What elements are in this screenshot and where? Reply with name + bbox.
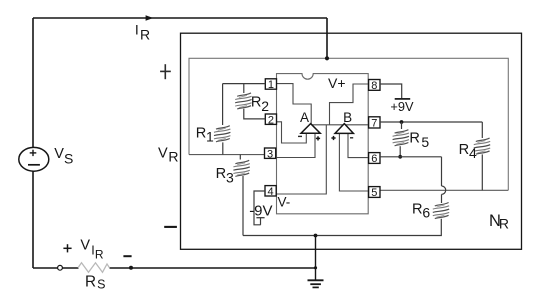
- wire: output line from A apex to pin 7: [311, 124, 368, 126]
- node: junction dot pin7 wire / R5 top: [400, 120, 404, 124]
- svg-text:2: 2: [268, 114, 274, 126]
- resistor R4: [474, 138, 490, 154]
- wire: hop to R6 top: [441, 194, 443, 203]
- pin 4: [265, 186, 276, 196]
- wire: pin3 to op-amp A non-inverting input (internal): [276, 133, 315, 158]
- svg-text:R: R: [196, 125, 207, 141]
- svg-text:1: 1: [268, 79, 274, 91]
- svg-text:V-: V-: [278, 195, 291, 210]
- resistor Rs (light gray zigzag): [78, 263, 110, 273]
- wire: pin3 net wire: [189, 154, 265, 156]
- wire: R2 top lead: [243, 84, 245, 93]
- svg-text:V: V: [80, 237, 90, 253]
- wire: R3 bottom lead down to ground wire: [242, 176, 244, 236]
- resistor R1: [214, 126, 230, 142]
- svg-text:R: R: [216, 166, 227, 182]
- svg-text:8: 8: [371, 80, 377, 92]
- op-amp B plus input mark: [331, 137, 335, 139]
- wire: op-amp B non-inverting input to pin 5 (internal): [339, 133, 368, 191]
- svg-text:7: 7: [371, 118, 377, 130]
- pin 6: [369, 153, 380, 164]
- wire: op-amp B inverting input to pin 6 (internal): [348, 133, 368, 157]
- wire: R5 top lead: [401, 122, 403, 129]
- svg-text:R: R: [251, 95, 262, 111]
- wire: vertical from pin6 wire down to hop: [441, 157, 443, 186]
- wire: R2 bottom lead and wire to pin 2: [244, 109, 265, 119]
- node: ground junction dot: [314, 234, 318, 238]
- op-amp A (triangle): [301, 124, 320, 134]
- svg-text:R: R: [95, 247, 104, 261]
- wire: R3 top lead: [239, 155, 241, 160]
- wire: top current wire from VS to inner net: [33, 17, 327, 19]
- wire: R5 bottom lead: [399, 146, 401, 157]
- svg-text:6: 6: [371, 153, 377, 165]
- wire: R1 top lead: [222, 84, 224, 125]
- svg-text:V: V: [158, 146, 168, 162]
- svg-text:3: 3: [226, 169, 234, 185]
- pin 5: [369, 187, 380, 198]
- pin 1: [265, 79, 276, 89]
- pin 8: [369, 80, 380, 91]
- wire: pin6 wire to R5/R6: [380, 156, 442, 158]
- +9V supply terminal bar: [395, 98, 411, 100]
- svg-text:4: 4: [268, 186, 274, 198]
- pin 7: [369, 117, 380, 128]
- svg-text:R: R: [412, 202, 423, 218]
- wire: pin5 net wire: [380, 189, 508, 191]
- svg-text:R: R: [499, 215, 509, 231]
- voltage source VS: [19, 147, 49, 171]
- svg-text:R: R: [85, 273, 96, 290]
- inner guard net: left edge, top edge, right edge: [189, 58, 508, 190]
- resistor R3: [233, 160, 249, 176]
- node: junction of top wire with inner net: [325, 56, 329, 60]
- op-amp B minus input mark: [350, 137, 353, 139]
- svg-text:S: S: [64, 150, 73, 166]
- current arrow IR on top wire: [146, 15, 154, 21]
- node: junction of bottom wire and ground stem: [314, 266, 317, 269]
- op-amp A plus input mark: [316, 137, 320, 139]
- minus polarity mark for VIR: [123, 255, 131, 257]
- svg-text:4: 4: [469, 145, 477, 161]
- wire: pin1 to op-amp A output (internal): [277, 84, 312, 125]
- op-amp A minus input mark: [298, 135, 302, 137]
- wire: ground stem: [315, 236, 317, 281]
- resistor R2: [235, 93, 251, 109]
- wire: pin2 to op-amp A inverting input (internal): [276, 122, 306, 143]
- pin 2: [265, 114, 276, 124]
- wire: bottom return wire right of Rs: [110, 267, 316, 269]
- outer box NR network boundary: [181, 33, 522, 249]
- plus polarity mark for VR: [164, 64, 166, 79]
- wire: vertical drop from top wire to inner net junction: [326, 18, 328, 58]
- resistor R5: [393, 130, 409, 146]
- svg-text:5: 5: [421, 134, 429, 150]
- svg-text:R: R: [409, 131, 420, 147]
- wire: left vertical from VS minus terminal to bottom wire: [32, 171, 34, 268]
- wire: pin8 wire to +9V supply: [380, 84, 402, 98]
- svg-text:R: R: [168, 149, 178, 165]
- resistor R6: [433, 203, 449, 219]
- svg-text:3: 3: [267, 148, 273, 160]
- wire: left vertical from top wire to VS plus terminal: [32, 18, 34, 148]
- wire: pin8 V+ rail (internal): [330, 84, 369, 125]
- minus polarity mark for VR: [164, 226, 177, 228]
- node: junction dot right of Rs: [129, 266, 133, 270]
- svg-text:R: R: [140, 27, 150, 43]
- svg-text:V+: V+: [328, 75, 346, 91]
- wire: R6 bottom lead to ground wire: [243, 219, 441, 236]
- -9V supply terminal bar: [256, 217, 264, 219]
- svg-text:B: B: [343, 110, 352, 125]
- wire: bottom return wire left of Rs: [33, 267, 79, 269]
- svg-text:-9V: -9V: [249, 202, 272, 219]
- wire hop over pin5 net wire: [442, 186, 446, 194]
- svg-text:5: 5: [371, 187, 377, 199]
- VS minus mark: [28, 164, 40, 166]
- svg-text:R: R: [459, 142, 470, 158]
- wire: pin1 wire to R1/R2: [223, 83, 266, 85]
- wire: R4 bottom lead to pin5 net wire: [481, 154, 483, 190]
- wire: pin4 V- rail (internal): [277, 125, 327, 194]
- svg-text:+9V: +9V: [390, 99, 414, 114]
- wire: R4 top lead from pin7 wire: [481, 122, 483, 138]
- node: junction dot R5 bottom on pin6 wire: [398, 155, 402, 159]
- plus polarity mark for VIR: [63, 247, 71, 249]
- svg-text:V: V: [54, 146, 64, 162]
- wire: R1 bottom lead: [222, 142, 224, 154]
- node: open terminal left of Rs: [58, 265, 63, 270]
- svg-text:A: A: [300, 110, 309, 125]
- op-amp IC body (DIP-8 outline with notch): [277, 74, 369, 214]
- svg-text:I: I: [135, 22, 139, 38]
- wire: pin7 wire to R5 and R4: [380, 121, 482, 123]
- pin 3: [265, 148, 276, 158]
- svg-text:6: 6: [422, 205, 430, 221]
- ground symbol: [308, 279, 324, 281]
- svg-text:S: S: [97, 277, 105, 291]
- op-amp B (triangle): [335, 124, 353, 134]
- wire: pin4 wire to -9V supply: [254, 191, 265, 225]
- svg-text:1: 1: [206, 129, 214, 145]
- VS plus mark: [30, 152, 37, 154]
- svg-text:2: 2: [261, 98, 269, 114]
